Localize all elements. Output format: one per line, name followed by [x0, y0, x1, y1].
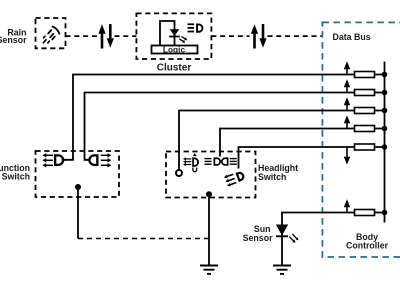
svg-text:Sensor: Sensor	[0, 35, 27, 45]
ground symbol sun sensor	[273, 266, 291, 274]
headlight switch box	[166, 152, 256, 198]
sun sensor photodiode	[276, 225, 288, 237]
switch common terminal (open circle)	[176, 170, 182, 176]
svg-text:Cluster: Cluster	[157, 63, 192, 74]
up arrow (pair 1)	[98, 24, 105, 48]
resistor R1	[355, 72, 375, 78]
up arrow row 3	[344, 97, 350, 110]
resistor R4	[355, 126, 375, 132]
cluster box	[136, 13, 211, 59]
down arrow (pair 2)	[259, 24, 266, 48]
svg-text:Switch: Switch	[258, 172, 286, 182]
wire row 6 (sun sensor to bus)	[282, 213, 385, 225]
junction dot row 1	[382, 72, 388, 78]
rain sensor box	[36, 18, 66, 48]
junction dot row 3	[382, 108, 388, 114]
resistor R6	[355, 210, 375, 216]
junction dot function switch	[75, 184, 81, 190]
junction dot row 6	[382, 210, 388, 216]
svg-text:Sensor: Sensor	[243, 233, 273, 243]
down arrow row 5	[344, 147, 350, 165]
junction dot row 4	[382, 126, 388, 132]
high-beam symbol in cluster (letter D)	[196, 24, 203, 33]
data link cluster to data bus (dashed wire)	[211, 35, 322, 37]
resistor R3	[355, 108, 375, 114]
label Headlight Switch	[258, 163, 298, 182]
sun sensor light arrows	[289, 234, 298, 243]
junction dot headlight switch	[206, 191, 212, 197]
ground symbol headlight switch	[200, 266, 218, 274]
label Rain Sensor	[0, 27, 27, 45]
ground wire headlight switch	[208, 194, 210, 265]
svg-text:Logic: Logic	[163, 44, 186, 54]
wire row 4 (parking symbol to bus)	[220, 129, 385, 157]
svg-text:Data Bus: Data Bus	[333, 32, 371, 42]
svg-text:Switch: Switch	[2, 172, 30, 182]
logic block	[152, 44, 198, 54]
wire row 5 (low beam symbol to bus)	[239, 147, 385, 169]
resistor R2	[355, 90, 375, 96]
label Sun Sensor	[243, 224, 273, 243]
rain sensor icon	[43, 27, 59, 43]
down arrow (pair 1)	[107, 24, 114, 48]
wire row 1 (function switch left to bus)	[64, 75, 385, 160]
dashed ground link	[78, 238, 208, 240]
LED D1 cluster indicator	[169, 29, 180, 36]
up arrow row 4	[344, 115, 350, 128]
auto headlight symbol (small D with A/U)	[183, 153, 199, 172]
data link rain to cluster (dashed wire)	[66, 35, 137, 37]
parking lights symbol (bars D mirrored-D bars)	[205, 157, 237, 165]
high-beam symbol in cluster (three bars)	[188, 24, 195, 31]
cluster lamp wire (staple)	[160, 21, 175, 46]
wire from function switch down	[77, 187, 79, 239]
label Body Controller	[346, 232, 389, 251]
LED D1 light arrows	[179, 36, 187, 42]
up arrow (pair 2)	[251, 24, 258, 48]
function switch box	[36, 151, 120, 197]
junction dot row 5	[382, 144, 388, 150]
label Function Switch	[0, 163, 30, 182]
wire row 2 (function switch right to bus)	[85, 93, 385, 160]
up arrow row 1	[344, 61, 350, 74]
bus vertical line	[384, 62, 386, 223]
resistor R5	[355, 144, 375, 150]
up arrow row 2	[344, 79, 350, 92]
svg-text:Controller: Controller	[346, 241, 389, 251]
junction dot row 2	[382, 90, 388, 96]
Data Bus box (blue dashed)	[322, 22, 400, 257]
low beam symbol (tilted D with arrows)	[223, 169, 246, 187]
right beam symbol mirrored D with right arrows	[86, 153, 111, 167]
left beam symbol D with left arrows	[42, 153, 66, 167]
up arrow row 6	[344, 199, 350, 212]
wire row 3 (headlight switch circle to bus)	[179, 111, 385, 170]
sun sensor wire	[281, 225, 283, 266]
